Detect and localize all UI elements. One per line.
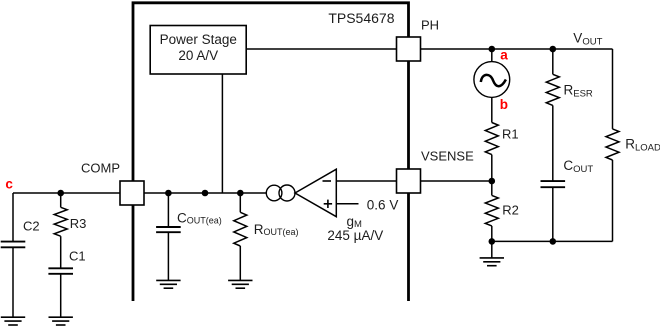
- svg-text:VOUT: VOUT: [573, 31, 602, 48]
- svg-text:a: a: [500, 48, 508, 63]
- wire PH to VOUT: [421, 48, 613, 50]
- svg-text:VSENSE: VSENSE: [421, 149, 474, 164]
- svg-text:Power Stage: Power Stage: [160, 32, 237, 47]
- ground under C2: [1, 317, 25, 325]
- wire noninverting input to 0.6V reference: [336, 203, 358, 205]
- svg-text:RLOAD: RLOAD: [625, 136, 660, 153]
- junction dot R2 bottom: [489, 238, 496, 245]
- op-amp minus input mark: [323, 180, 332, 182]
- pin COMP: [120, 181, 144, 205]
- wire power stage output to PH pin: [246, 48, 396, 50]
- junction dot node c / R3: [57, 190, 64, 197]
- svg-text:RESR: RESR: [564, 83, 593, 100]
- resistor R3: [60, 193, 62, 207]
- ground under R2: [491, 241, 493, 258]
- svg-text:R3: R3: [70, 216, 87, 231]
- ground under C1: [49, 317, 73, 325]
- resistor RESR: [552, 49, 554, 74]
- IC boundary TPS54678: [133, 3, 409, 301]
- resistor R1: [491, 97, 493, 122]
- op-amp U1 gm error amplifier output current source: [266, 185, 282, 201]
- AC source injection: [491, 49, 493, 62]
- junction dot COUT(ea): [165, 190, 172, 197]
- svg-text:C1: C1: [69, 249, 86, 264]
- op-amp U1 triangle: [295, 169, 336, 217]
- wire COMP to error amp output: [144, 192, 267, 194]
- pin PH: [397, 37, 421, 61]
- svg-text:R2: R2: [502, 202, 519, 217]
- op-amp plus input mark: [324, 203, 332, 205]
- wire inverting input to VSENSE: [336, 180, 396, 182]
- svg-text:COMP: COMP: [81, 161, 120, 176]
- wire power stage input from COMP node: [221, 74, 223, 193]
- svg-text:COUT(ea): COUT(ea): [177, 210, 222, 225]
- node a junction dot: [489, 46, 496, 53]
- pin VSENSE: [397, 169, 421, 193]
- power stage block: [150, 26, 246, 75]
- junction dot VSENSE node: [489, 178, 496, 185]
- svg-text:20 A/V: 20 A/V: [178, 48, 218, 63]
- capacitor C2: [12, 193, 14, 242]
- wire node c to COMP: [13, 192, 120, 194]
- svg-text:b: b: [500, 97, 508, 112]
- svg-text:TPS54678: TPS54678: [328, 10, 394, 26]
- ground under COUT(ea): [156, 280, 180, 288]
- resistor RLOAD: [612, 49, 614, 129]
- wire VSENSE to feedback node: [421, 180, 492, 182]
- junction dot power stage branch: [202, 190, 209, 197]
- svg-text:0.6 V: 0.6 V: [367, 197, 399, 212]
- svg-text:c: c: [5, 176, 13, 191]
- junction dot COUT bottom: [550, 238, 557, 245]
- svg-text:C2: C2: [23, 219, 40, 234]
- capacitor COUT: [552, 105, 554, 181]
- capacitor C1: [60, 236, 62, 268]
- resistor R2: [491, 181, 493, 195]
- capacitor COUT(ea): [167, 193, 169, 227]
- resistor ROUT(ea): [239, 193, 241, 212]
- svg-text:PH: PH: [421, 17, 439, 32]
- svg-text:ROUT(ea): ROUT(ea): [254, 222, 299, 237]
- svg-text:COUT: COUT: [563, 158, 593, 175]
- ground under ROUT(ea): [228, 280, 252, 288]
- junction dot ROUT(ea): [237, 190, 244, 197]
- wire bottom rail: [492, 240, 613, 242]
- junction dot RESR top: [550, 46, 557, 53]
- svg-text:245 µA/V: 245 µA/V: [327, 228, 383, 243]
- svg-text:R1: R1: [502, 127, 519, 142]
